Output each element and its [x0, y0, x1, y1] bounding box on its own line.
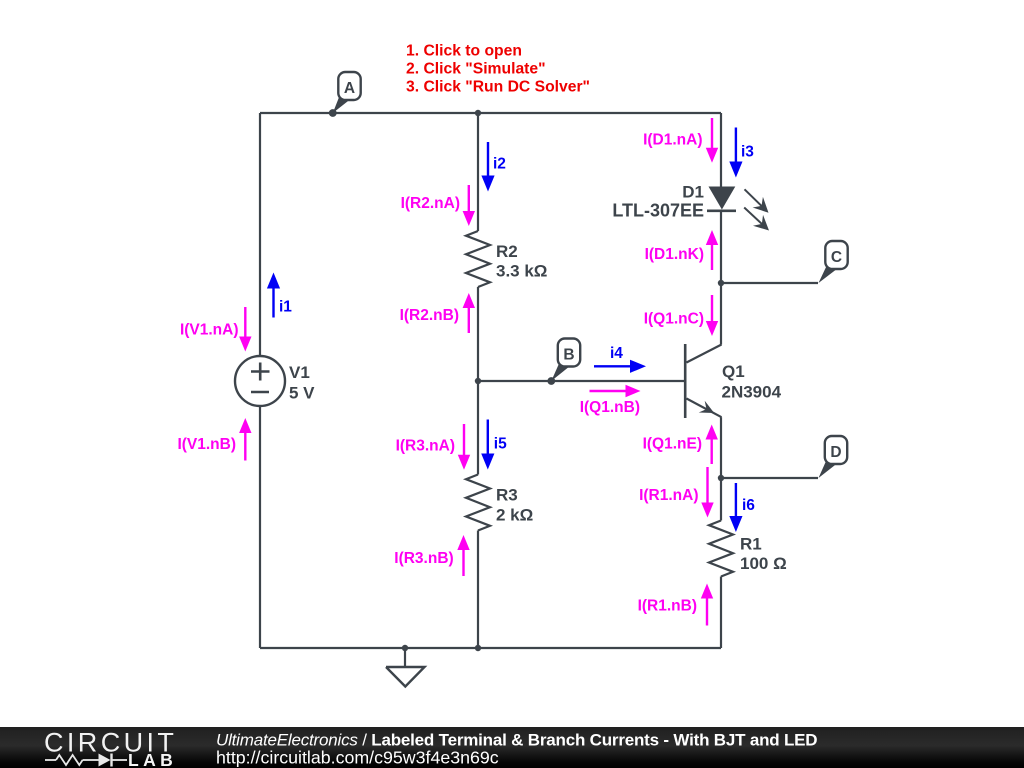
svg-text:I(Q1.nC): I(Q1.nC) [644, 311, 704, 328]
svg-text:i4: i4 [610, 345, 623, 362]
svg-text:I(R1.nA): I(R1.nA) [639, 487, 698, 504]
svg-text:i5: i5 [494, 436, 507, 453]
svg-text:2. Click "Simulate": 2. Click "Simulate" [406, 61, 546, 78]
svg-text:I(R3.nA): I(R3.nA) [396, 438, 455, 455]
svg-text:I(R1.nB): I(R1.nB) [638, 598, 697, 615]
svg-text:http://circuitlab.com/c95w3f4e: http://circuitlab.com/c95w3f4e3n69c [216, 748, 499, 768]
svg-text:3. Click "Run DC Solver": 3. Click "Run DC Solver" [406, 79, 590, 96]
svg-text:V1: V1 [289, 363, 310, 382]
svg-text:I(R2.nB): I(R2.nB) [400, 307, 459, 324]
svg-text:5 V: 5 V [289, 384, 315, 403]
svg-text:I(V1.nA): I(V1.nA) [180, 322, 239, 339]
svg-text:LAB: LAB [128, 750, 177, 768]
svg-text:D1: D1 [682, 183, 704, 202]
svg-text:R3: R3 [496, 486, 518, 505]
svg-text:2N3904: 2N3904 [722, 383, 782, 402]
svg-text:I(Q1.nB): I(Q1.nB) [580, 399, 640, 416]
svg-text:LTL-307EE: LTL-307EE [612, 201, 704, 221]
svg-text:1. Click to open: 1. Click to open [406, 43, 522, 60]
svg-text:i2: i2 [493, 156, 506, 173]
svg-text:i3: i3 [741, 144, 754, 161]
svg-text:i6: i6 [742, 497, 755, 514]
svg-text:i1: i1 [279, 299, 292, 316]
svg-text:2 kΩ: 2 kΩ [496, 506, 533, 525]
svg-text:I(D1.nA): I(D1.nA) [643, 132, 702, 149]
svg-text:C: C [831, 249, 842, 266]
svg-text:R1: R1 [740, 535, 762, 554]
svg-text:R2: R2 [496, 242, 518, 261]
svg-text:3.3 kΩ: 3.3 kΩ [496, 262, 547, 281]
svg-text:I(R3.nB): I(R3.nB) [394, 550, 453, 567]
svg-text:100 Ω: 100 Ω [740, 554, 787, 573]
svg-text:Q1: Q1 [722, 362, 745, 381]
svg-text:D: D [830, 444, 841, 461]
svg-text:B: B [563, 347, 574, 364]
svg-text:I(R2.nA): I(R2.nA) [401, 195, 460, 212]
svg-text:I(Q1.nE): I(Q1.nE) [643, 436, 702, 453]
svg-text:I(V1.nB): I(V1.nB) [177, 436, 236, 453]
svg-text:I(D1.nK): I(D1.nK) [645, 246, 704, 263]
svg-text:A: A [344, 80, 355, 97]
